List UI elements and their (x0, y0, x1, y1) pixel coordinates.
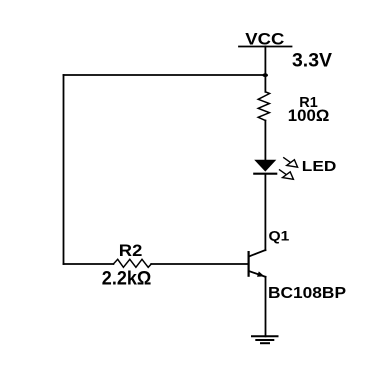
svg-text:Q1: Q1 (269, 228, 290, 243)
svg-text:3.3V: 3.3V (292, 50, 332, 71)
svg-text:VCC: VCC (245, 30, 284, 49)
svg-text:LED: LED (302, 159, 337, 175)
svg-text:100Ω: 100Ω (288, 107, 330, 125)
svg-text:R2: R2 (119, 241, 143, 260)
svg-text:2.2kΩ: 2.2kΩ (102, 269, 152, 290)
svg-text:BC108BP: BC108BP (268, 285, 346, 302)
